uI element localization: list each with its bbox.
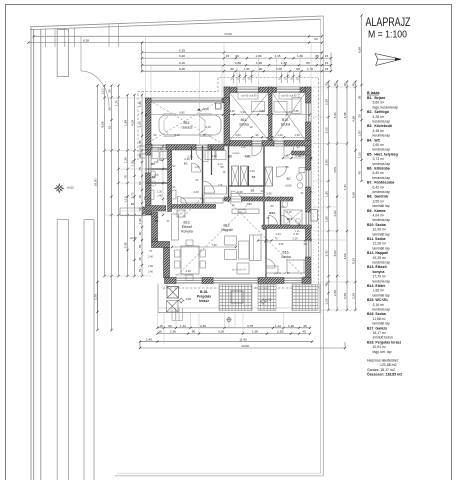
utility pad east wall bbox=[311, 210, 318, 222]
cross brace B10 bbox=[272, 93, 306, 141]
svg-text:1,66 m²: 1,66 m² bbox=[373, 289, 385, 293]
svg-text:90: 90 bbox=[314, 37, 318, 41]
svg-text:2,35: 2,35 bbox=[170, 330, 176, 334]
svg-text:6,60: 6,60 bbox=[237, 190, 243, 194]
svg-text:2,28: 2,28 bbox=[324, 99, 328, 105]
svg-text:B2.: B2. bbox=[155, 219, 160, 223]
svg-text:Hasznos lakóterület:: Hasznos lakóterület: bbox=[367, 359, 399, 363]
svg-text:fagy. ker. lap: fagy. ker. lap bbox=[373, 350, 392, 354]
svg-text:16,00: 16,00 bbox=[93, 178, 97, 186]
svg-text:30: 30 bbox=[357, 114, 361, 118]
svg-text:1,98: 1,98 bbox=[123, 120, 127, 126]
svg-text:40: 40 bbox=[351, 83, 355, 87]
svg-text:90: 90 bbox=[235, 54, 239, 58]
svg-text:1,90: 1,90 bbox=[252, 330, 258, 334]
svg-text:50: 50 bbox=[138, 207, 142, 211]
svg-text:Tűzivíz tároló: Tűzivíz tároló bbox=[255, 287, 269, 290]
right dim col 1 bbox=[328, 82, 330, 311]
entrance step mat bbox=[142, 207, 152, 214]
window B11 north bbox=[237, 87, 259, 93]
svg-text:laminált lap: laminált lap bbox=[373, 246, 390, 250]
svg-text:1,80: 1,80 bbox=[281, 61, 287, 65]
entrance steps west bbox=[140, 145, 146, 147]
door B7 bbox=[277, 167, 287, 177]
svg-text:2,28: 2,28 bbox=[351, 293, 355, 299]
wall garage-B11 bbox=[224, 98, 230, 145]
wall kitchen-living top bbox=[172, 204, 216, 208]
svg-text:1,30: 1,30 bbox=[138, 101, 142, 107]
svg-text:1,70: 1,70 bbox=[138, 121, 142, 127]
door B2 entrance bbox=[145, 190, 155, 200]
svg-text:kerámia lap: kerámia lap bbox=[373, 190, 391, 194]
B6 wardrobe ladder 2 bbox=[265, 167, 273, 186]
door B11 swing bbox=[252, 146, 262, 156]
svg-text:2,40: 2,40 bbox=[148, 271, 153, 274]
exterior wall west bbox=[146, 98, 152, 215]
dimension connector right bbox=[330, 53, 332, 72]
svg-text:60: 60 bbox=[168, 324, 172, 328]
svg-text:1,13: 1,13 bbox=[123, 196, 127, 202]
svg-text:kerámia lap: kerámia lap bbox=[373, 218, 391, 222]
svg-text:fagy. kerámia lap: fagy. kerámia lap bbox=[373, 105, 399, 109]
appliances corridor top bbox=[205, 151, 215, 160]
svg-text:30: 30 bbox=[324, 82, 328, 86]
svg-text:1,40: 1,40 bbox=[241, 146, 246, 149]
svg-text:4,48 m²: 4,48 m² bbox=[373, 129, 385, 133]
wall jog kitchen bbox=[152, 242, 170, 248]
svg-text:13,00: 13,00 bbox=[241, 344, 249, 348]
svg-text:2,80: 2,80 bbox=[259, 109, 265, 113]
top dimension chain 8.28 bbox=[29, 42, 323, 44]
door B16 bbox=[266, 259, 275, 268]
pergola post left bbox=[167, 287, 179, 299]
svg-text:3,73 m²: 3,73 m² bbox=[373, 157, 385, 161]
svg-text:2,10: 2,10 bbox=[218, 163, 223, 166]
plot boundary: east double line bbox=[322, 16, 324, 476]
svg-text:45: 45 bbox=[302, 330, 306, 334]
svg-text:1,10: 1,10 bbox=[100, 88, 104, 94]
svg-text:Nappali: Nappali bbox=[221, 228, 233, 232]
svg-text:1,30: 1,30 bbox=[157, 147, 163, 151]
svg-text:Összesen: 138,85 m2: Összesen: 138,85 m2 bbox=[367, 373, 402, 377]
svg-text:kerámia lap: kerámia lap bbox=[373, 120, 391, 124]
svg-text:B12. Nappali: B12. Nappali bbox=[367, 251, 388, 255]
plot boundary: slanted north line double bbox=[30, 16, 323, 27]
kitchen table bbox=[181, 246, 199, 274]
svg-text:Pergolás: Pergolás bbox=[197, 295, 211, 299]
svg-text:11,40: 11,40 bbox=[239, 338, 247, 342]
door B10 swing bbox=[284, 146, 294, 156]
wall B11-B10 bbox=[269, 87, 273, 141]
svg-text:3,30: 3,30 bbox=[246, 202, 252, 206]
svg-text:kerámia lap: kerámia lap bbox=[373, 176, 391, 180]
svg-text:6,40 m²: 6,40 m² bbox=[373, 171, 385, 175]
svg-text:kerámia lap: kerámia lap bbox=[373, 261, 391, 265]
svg-text:laminált lap: laminált lap bbox=[373, 204, 390, 208]
svg-text:2,10: 2,10 bbox=[292, 237, 298, 241]
window B15 east bbox=[306, 212, 312, 227]
svg-text:2,72: 2,72 bbox=[130, 192, 134, 198]
window B10 north bbox=[277, 87, 301, 93]
door B3-kitchen bbox=[178, 197, 188, 207]
plot boundary: west double line bbox=[30, 27, 32, 480]
dimension connector left bbox=[141, 43, 143, 72]
svg-text:1,95: 1,95 bbox=[256, 61, 262, 65]
washer B5 bbox=[152, 152, 159, 159]
svg-text:B3.: B3. bbox=[184, 162, 189, 166]
svg-text:1,50: 1,50 bbox=[154, 161, 159, 164]
window B16 south bbox=[284, 278, 302, 284]
interior bearing wall mid garage bbox=[146, 145, 225, 151]
svg-text:13,00: 13,00 bbox=[224, 32, 232, 36]
door garage-corridor swing bbox=[196, 150, 208, 162]
left dim col 6 bbox=[134, 95, 136, 276]
svg-text:7,30: 7,30 bbox=[211, 243, 217, 247]
svg-text:19,28 m²: 19,28 m² bbox=[373, 256, 387, 260]
svg-text:6,42 m²: 6,42 m² bbox=[373, 185, 385, 189]
svg-text:15: 15 bbox=[325, 54, 329, 58]
top dimension row 3 bbox=[142, 70, 331, 72]
svg-text:10,04 m²: 10,04 m² bbox=[373, 345, 387, 349]
exterior wall north upper block bbox=[224, 87, 311, 93]
svg-text:B14.: B14. bbox=[269, 211, 276, 215]
svg-text:45: 45 bbox=[357, 171, 361, 175]
svg-text:6,20: 6,20 bbox=[179, 67, 185, 71]
svg-text:1,15: 1,15 bbox=[274, 54, 280, 58]
car in garage bbox=[159, 115, 221, 135]
svg-text:1,00: 1,00 bbox=[357, 152, 361, 158]
svg-text:B14. Előtér: B14. Előtér bbox=[367, 284, 386, 288]
svg-text:6,98: 6,98 bbox=[357, 47, 361, 53]
WC B15 fixtures bbox=[284, 210, 302, 226]
svg-text:6,29: 6,29 bbox=[179, 49, 185, 53]
svg-text:18,17 m²: 18,17 m² bbox=[373, 331, 387, 335]
svg-text:45: 45 bbox=[303, 324, 307, 328]
svg-text:80: 80 bbox=[192, 330, 196, 334]
fence line west bbox=[40, 29, 42, 480]
svg-text:B17. Garázs: B17. Garázs bbox=[367, 326, 387, 330]
roof overhang dashed outline bbox=[138, 77, 319, 288]
svg-text:90: 90 bbox=[230, 67, 234, 71]
svg-text:2,80: 2,80 bbox=[324, 159, 328, 165]
window B16 east bbox=[306, 240, 312, 257]
svg-text:35: 35 bbox=[107, 107, 111, 111]
right dim col 3 bbox=[346, 82, 348, 311]
svg-text:60: 60 bbox=[154, 133, 157, 137]
svg-text:B10.: B10. bbox=[282, 118, 289, 122]
door B15 bbox=[281, 216, 290, 225]
svg-text:1,70: 1,70 bbox=[114, 100, 118, 106]
svg-text:B16.: B16. bbox=[283, 251, 290, 255]
fence posts top-left bbox=[45, 28, 47, 47]
door B5 bbox=[192, 163, 201, 172]
svg-text:+0,30: +0,30 bbox=[201, 107, 209, 111]
svg-text:1,40: 1,40 bbox=[146, 338, 152, 342]
left dim col 7 bbox=[141, 95, 143, 276]
svg-text:B8. Gardrob: B8. Gardrob bbox=[367, 195, 388, 199]
roof ridge dashed diagonals garage bbox=[146, 98, 223, 144]
garage door north bbox=[151, 98, 222, 103]
svg-text:15: 15 bbox=[226, 54, 230, 58]
svg-text:4,30: 4,30 bbox=[333, 112, 337, 118]
partition B8 right bbox=[248, 166, 250, 186]
pergola post left lower bbox=[167, 301, 179, 313]
exterior wall step between blocks bbox=[224, 87, 230, 104]
svg-text:2,05: 2,05 bbox=[276, 67, 282, 71]
svg-text:3,30: 3,30 bbox=[229, 109, 235, 113]
svg-text:3,75: 3,75 bbox=[247, 324, 253, 328]
svg-text:4,05: 4,05 bbox=[333, 167, 337, 173]
svg-text:5,60 m²: 5,60 m² bbox=[373, 101, 385, 105]
svg-text:laminált lap: laminált lap bbox=[373, 293, 390, 297]
svg-text:2,40: 2,40 bbox=[157, 195, 162, 198]
svg-text:70: 70 bbox=[203, 133, 206, 137]
svg-text:konyha: konyha bbox=[373, 270, 385, 274]
svg-text:B6: B6 bbox=[228, 155, 232, 159]
door B10 bbox=[274, 141, 284, 147]
svg-text:1,12: 1,12 bbox=[275, 324, 281, 328]
bottom dim row 3 bbox=[140, 341, 312, 343]
pergola deck grid bbox=[219, 285, 252, 311]
svg-text:B13. Étkező: B13. Étkező bbox=[367, 264, 387, 269]
opening garage-south bbox=[152, 145, 166, 151]
partition B8/B9 bbox=[229, 185, 265, 187]
pergola table bbox=[231, 291, 243, 303]
svg-text:kerámia lap: kerámia lap bbox=[373, 148, 391, 152]
interior dim line rooms lower bbox=[225, 136, 310, 138]
svg-text:11,88 m²: 11,88 m² bbox=[373, 317, 387, 321]
extension lines right bbox=[313, 86, 356, 88]
svg-text:1,50: 1,50 bbox=[357, 130, 361, 136]
svg-text:2,76: 2,76 bbox=[93, 294, 97, 300]
svg-text:1,35: 1,35 bbox=[218, 184, 223, 187]
garage center extension bbox=[199, 98, 201, 144]
sofa right bbox=[250, 235, 262, 261]
partition walls interior bbox=[168, 151, 172, 212]
svg-text:B17.: B17. bbox=[184, 121, 191, 125]
left dim col 3 bbox=[111, 86, 113, 331]
svg-text:1,90: 1,90 bbox=[324, 191, 328, 197]
svg-text:kerámia lap: kerámia lap bbox=[373, 279, 391, 283]
svg-text:15: 15 bbox=[159, 324, 163, 328]
svg-text:B13.: B13. bbox=[184, 221, 191, 225]
svg-text:4,38: 4,38 bbox=[351, 116, 355, 122]
svg-text:1,30: 1,30 bbox=[157, 191, 162, 194]
svg-text:5,60: 5,60 bbox=[266, 192, 272, 196]
right dim col 2 bbox=[336, 82, 338, 311]
svg-text:B18. Pergolás terasz: B18. Pergolás terasz bbox=[367, 340, 401, 344]
svg-text:2,28: 2,28 bbox=[333, 290, 337, 296]
entrance walkway bbox=[120, 208, 146, 216]
svg-text:kerámia lap: kerámia lap bbox=[373, 308, 391, 312]
window B7 east bbox=[306, 170, 312, 187]
svg-text:-0,02: -0,02 bbox=[185, 297, 192, 301]
svg-text:1,80: 1,80 bbox=[297, 54, 303, 58]
terrace outline bbox=[158, 284, 320, 313]
svg-text:2,80: 2,80 bbox=[293, 109, 299, 113]
svg-text:3,30: 3,30 bbox=[185, 269, 191, 273]
svg-text:2,25: 2,25 bbox=[277, 330, 283, 334]
svg-text:B7.: B7. bbox=[287, 177, 292, 181]
svg-text:Szoba: Szoba bbox=[281, 123, 291, 127]
svg-text:90: 90 bbox=[259, 67, 263, 71]
bottom dim row 4 bbox=[140, 347, 345, 349]
svg-text:1,80: 1,80 bbox=[324, 216, 328, 222]
svg-text:90: 90 bbox=[296, 67, 300, 71]
right dim col 4 bbox=[355, 82, 357, 311]
svg-text:90: 90 bbox=[256, 133, 259, 137]
duct nook B7 bbox=[292, 151, 312, 155]
svg-text:+0,00: +0,00 bbox=[285, 184, 292, 188]
svg-text:terasz: terasz bbox=[199, 299, 209, 303]
tv cabinet living bbox=[232, 209, 259, 214]
svg-text:1,50: 1,50 bbox=[130, 160, 134, 166]
svg-text:2,03: 2,03 bbox=[324, 127, 328, 133]
door B2-corridor bbox=[167, 190, 176, 199]
svg-text:8,66: 8,66 bbox=[100, 121, 104, 127]
svg-text:8,28: 8,28 bbox=[83, 39, 89, 43]
svg-text:1,30: 1,30 bbox=[138, 218, 142, 224]
svg-text:2,65: 2,65 bbox=[200, 324, 206, 328]
dotted line east inner bbox=[313, 87, 315, 282]
WC B4 fixture bbox=[150, 171, 156, 178]
left dim col 2 bbox=[104, 86, 106, 277]
svg-text:kerámia lap: kerámia lap bbox=[373, 162, 391, 166]
door B6-living bbox=[231, 191, 242, 202]
svg-text:1,70: 1,70 bbox=[307, 67, 313, 71]
svg-text:M = 1:100: M = 1:100 bbox=[368, 29, 407, 41]
exterior wall west lower bbox=[152, 212, 158, 242]
window B1 west bbox=[146, 155, 152, 173]
svg-text:85: 85 bbox=[315, 54, 319, 58]
svg-text:3,66: 3,66 bbox=[343, 253, 347, 259]
svg-text:laminált lap: laminált lap bbox=[373, 322, 390, 326]
svg-text:B3. Közlekedő: B3. Közlekedő bbox=[367, 124, 392, 128]
svg-text:1,80: 1,80 bbox=[235, 61, 241, 65]
top dimension row windows B11 bbox=[142, 57, 331, 59]
bed B16 bbox=[287, 260, 309, 273]
svg-text:85: 85 bbox=[306, 61, 310, 65]
extension lines left bbox=[104, 97, 146, 99]
svg-text:45: 45 bbox=[138, 257, 142, 261]
door garage-corridor bbox=[196, 145, 208, 151]
svg-text:2,30: 2,30 bbox=[211, 154, 217, 158]
svg-text:2,40: 2,40 bbox=[148, 256, 153, 259]
garage heater unit bbox=[216, 103, 222, 109]
svg-text:3,30: 3,30 bbox=[278, 242, 284, 246]
svg-text:45: 45 bbox=[324, 283, 328, 287]
svg-text:15: 15 bbox=[107, 126, 111, 130]
svg-text:40: 40 bbox=[138, 195, 142, 199]
svg-text:1,60 m²: 1,60 m² bbox=[373, 143, 385, 147]
desk B16 bbox=[266, 266, 278, 273]
svg-text:B10. Szoba: B10. Szoba bbox=[367, 223, 386, 227]
gate swing arc bbox=[81, 71, 109, 107]
plot boundary: south double line bbox=[115, 475, 323, 477]
svg-text:90: 90 bbox=[271, 204, 274, 208]
svg-text:2,35: 2,35 bbox=[123, 242, 127, 248]
svg-text:km 3,30 pm 1,00: km 3,30 pm 1,00 bbox=[175, 275, 193, 277]
svg-text:1,13: 1,13 bbox=[275, 232, 281, 236]
coffee table bbox=[239, 241, 250, 259]
svg-text:+0,08: +0,08 bbox=[129, 236, 137, 240]
svg-text:15: 15 bbox=[158, 330, 162, 334]
right dim col 5 top bbox=[361, 16, 363, 182]
interior dim living bbox=[172, 246, 236, 248]
walkway strip right bbox=[84, 220, 94, 480]
svg-text:bm 90 pm 90: bm 90 pm 90 bbox=[232, 268, 247, 271]
desk south living bbox=[237, 263, 249, 274]
svg-text:B4. WC: B4. WC bbox=[367, 138, 381, 142]
gardrob wardrobes B8 bbox=[232, 166, 239, 186]
svg-text:B15. WC+Zh.: B15. WC+Zh. bbox=[367, 298, 389, 302]
svg-text:Konyha: Konyha bbox=[181, 230, 193, 234]
svg-text:1,25: 1,25 bbox=[324, 298, 328, 304]
terrace steps bbox=[171, 308, 173, 321]
svg-text:36: 36 bbox=[357, 96, 361, 100]
svg-text:Garázs: 18,17 m2: Garázs: 18,17 m2 bbox=[367, 368, 395, 372]
window tick group B10 bbox=[281, 73, 283, 84]
svg-text:B16. Szoba: B16. Szoba bbox=[367, 312, 386, 316]
svg-text:15: 15 bbox=[325, 67, 329, 71]
svg-text:B2. Szélfogó: B2. Szélfogó bbox=[367, 110, 389, 114]
svg-text:B8: B8 bbox=[252, 175, 256, 179]
svg-text:1,58: 1,58 bbox=[148, 265, 153, 268]
door B11 bbox=[252, 141, 262, 147]
bottom dim row 1 bbox=[158, 327, 311, 329]
interior dim rows B16 bbox=[258, 240, 311, 242]
svg-text:1,35: 1,35 bbox=[138, 140, 142, 146]
svg-text:B lakás: B lakás bbox=[367, 91, 380, 95]
svg-text:4,04 m²: 4,04 m² bbox=[373, 214, 385, 218]
svg-text:17,79 m²: 17,79 m² bbox=[373, 275, 387, 279]
svg-text:B11.: B11. bbox=[241, 118, 248, 122]
svg-text:1,30: 1,30 bbox=[294, 133, 300, 137]
svg-text:2,30: 2,30 bbox=[187, 155, 193, 159]
svg-text:3,60: 3,60 bbox=[333, 250, 337, 256]
svg-text:Étkező: Étkező bbox=[182, 224, 192, 229]
svg-text:tolóajtó: tolóajtó bbox=[232, 152, 240, 155]
svg-text:1,20: 1,20 bbox=[288, 324, 294, 328]
svg-text:1,12: 1,12 bbox=[180, 324, 186, 328]
svg-text:B6. Előszoba: B6. Előszoba bbox=[367, 167, 390, 171]
svg-text:75: 75 bbox=[123, 175, 127, 179]
svg-text:B15.: B15. bbox=[287, 217, 293, 221]
svg-text:1,40: 1,40 bbox=[152, 237, 158, 241]
window kitchen south bbox=[176, 278, 202, 284]
svg-text:3,39: 3,39 bbox=[218, 330, 224, 334]
left dim col 16.00 bbox=[97, 86, 99, 331]
svg-text:B11. Szoba: B11. Szoba bbox=[367, 237, 386, 241]
svg-text:B1. Bejáró: B1. Bejáró bbox=[367, 96, 385, 100]
svg-text:30: 30 bbox=[107, 89, 111, 93]
svg-text:pol 90 pol 90: pol 90 pol 90 bbox=[241, 95, 257, 98]
svg-text:2,40: 2,40 bbox=[193, 190, 199, 194]
armchairs left bbox=[225, 236, 237, 245]
svg-text:60: 60 bbox=[138, 232, 142, 236]
svg-text:1,40: 1,40 bbox=[154, 216, 159, 219]
extension lines bottom bbox=[157, 313, 159, 327]
svg-text:6,20: 6,20 bbox=[179, 61, 185, 65]
svg-text:15: 15 bbox=[325, 61, 329, 65]
extension lines top bbox=[145, 37, 147, 99]
svg-text:ALAPRAJZ: ALAPRAJZ bbox=[366, 17, 411, 29]
svg-text:Szoba: Szoba bbox=[239, 123, 249, 127]
svg-text:kerámia lap: kerámia lap bbox=[373, 134, 391, 138]
svg-text:3,00: 3,00 bbox=[235, 133, 241, 137]
svg-text:75: 75 bbox=[138, 269, 142, 273]
svg-text:1,80: 1,80 bbox=[255, 54, 261, 58]
